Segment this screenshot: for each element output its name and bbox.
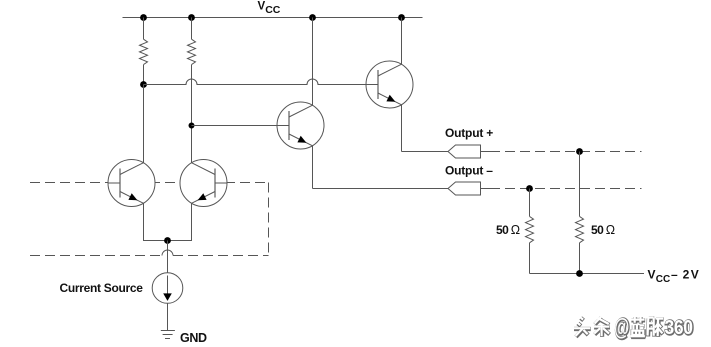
node Output+ tap xyxy=(576,148,583,155)
svg-text:Ω: Ω xyxy=(606,223,615,237)
svg-text:Current Source: Current Source xyxy=(60,281,144,295)
node VCC-R1 junction xyxy=(140,14,147,21)
node R1-Q1 junction xyxy=(140,81,147,88)
wire Output+ stub xyxy=(481,151,491,153)
wire Q1 collector up xyxy=(143,85,145,164)
node Output- tap xyxy=(526,185,533,192)
svg-text:50: 50 xyxy=(591,223,604,237)
svg-text:@: @ xyxy=(614,315,629,341)
wire R2 top lead xyxy=(191,18,193,40)
wire Q3 emitter to Output- xyxy=(313,188,449,190)
terminal Output- xyxy=(448,182,481,195)
svg-text:Output +: Output + xyxy=(445,126,493,140)
dashed line Output+ xyxy=(490,151,642,153)
svg-text:Output –: Output – xyxy=(445,164,493,178)
wire Q1 emitter down xyxy=(144,203,168,240)
wire Output- stub xyxy=(481,188,491,190)
wire R2 bottom to Q2 collector xyxy=(191,65,193,164)
current source I1 xyxy=(152,273,183,304)
wire VCC rail xyxy=(123,17,423,19)
wire current source to ground xyxy=(167,303,169,330)
svg-text:360: 360 xyxy=(665,317,693,340)
ground xyxy=(161,330,175,332)
node R2-Q3base junction xyxy=(189,123,195,129)
wire Q3 collector up xyxy=(312,18,314,106)
wire Q2 emitter down xyxy=(168,203,192,240)
dashed box bottom right part xyxy=(173,255,269,257)
wire base rail with hops xyxy=(144,79,367,85)
transistor Q4 xyxy=(366,61,413,108)
watermark toutiao lantun360 xyxy=(574,315,694,342)
svg-text:V: V xyxy=(648,268,656,282)
resistor R1 xyxy=(140,39,148,64)
transistor Q3 xyxy=(277,102,324,149)
wire R4 top lead xyxy=(579,152,581,217)
wire Q3 base lead xyxy=(192,125,278,127)
wire Q4 collector up xyxy=(401,18,403,65)
svg-text:50: 50 xyxy=(496,223,509,237)
dashed input line top xyxy=(30,182,269,184)
wire Q3 emitter down xyxy=(312,146,314,189)
node emitter junction xyxy=(164,237,171,244)
svg-text:CC: CC xyxy=(656,274,670,285)
terminal Output+ xyxy=(448,145,481,158)
wire Vcc-2V rail xyxy=(530,273,645,275)
wire R3 bottom lead xyxy=(529,243,531,274)
node R4 bottom junction xyxy=(576,270,583,277)
wire Q4 emitter to Output+ xyxy=(402,151,449,153)
node VCC-Q4 junction xyxy=(398,14,405,21)
transistor Q1 xyxy=(108,160,155,207)
svg-text:–: – xyxy=(671,268,678,282)
svg-text:V: V xyxy=(691,268,699,282)
node VCC-R2 junction xyxy=(188,14,195,21)
resistor R4 50ohm xyxy=(576,216,584,242)
wire Q4 emitter down xyxy=(401,105,403,152)
dashed box bottom left part xyxy=(30,255,162,257)
dashed box bottom hop xyxy=(162,250,173,255)
wire R4 bottom lead xyxy=(579,243,581,274)
svg-text:CC: CC xyxy=(265,4,281,16)
transistor Q2 xyxy=(180,160,227,207)
wire R3 top lead xyxy=(529,189,531,217)
resistor R2 xyxy=(188,39,196,64)
svg-text:Ω: Ω xyxy=(511,223,520,237)
svg-text:2: 2 xyxy=(683,268,690,282)
wire R1 bottom lead xyxy=(143,65,145,85)
dashed box right edge xyxy=(268,183,270,256)
node VCC-Q3 junction xyxy=(309,14,316,21)
resistor R3 50ohm xyxy=(526,216,534,242)
svg-text:GND: GND xyxy=(180,331,207,345)
dashed line Output- xyxy=(490,188,642,190)
wire R1 top lead xyxy=(143,18,145,40)
wire tail to current source xyxy=(167,241,169,273)
